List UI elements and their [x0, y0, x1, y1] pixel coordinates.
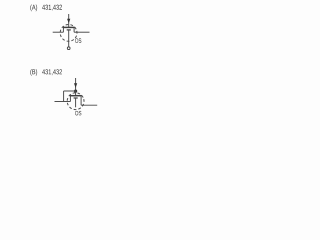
wire: feedback loop top segment (B): [64, 90, 76, 92]
gate bar (A): [67, 29, 71, 31]
value label 431,432 (A): [42, 5, 62, 11]
label OS (B): [75, 111, 81, 116]
drain leg left (A): [62, 28, 64, 33]
label OS (A): [75, 38, 81, 43]
open terminal circle (A bottom): [67, 47, 70, 50]
wire: substrate lead with arrow (A top): [68, 14, 70, 27]
label (A): [30, 4, 37, 11]
wire: right lead (A): [74, 31, 89, 33]
wire: left lead (A): [53, 31, 64, 33]
junction dot (B): [74, 90, 77, 93]
arrowhead down (A): [67, 19, 70, 24]
gate stem wire (B): [75, 98, 77, 107]
label (B): [30, 69, 37, 76]
source leg right (B): [80, 96, 82, 106]
source leg right (A): [73, 28, 75, 33]
arrowhead down (B): [74, 83, 77, 88]
transistor Q2 envelope (dashed circle): [65, 91, 85, 111]
transistor Q1 envelope (dashed circle): [58, 23, 78, 43]
wire: right lead (B): [81, 104, 97, 106]
wire: feedback loop vertical segment (B): [63, 91, 65, 102]
value label 431,432 (B): [42, 69, 62, 75]
gate stem wire (A): [68, 30, 70, 47]
wire: top lead with arrow (B): [75, 78, 77, 91]
channel bar (A): [63, 26, 75, 28]
wire: left lead (B): [55, 101, 71, 103]
gate bar (B): [74, 97, 78, 99]
channel bar (B): [70, 95, 82, 97]
wire: dot to channel (B): [75, 91, 77, 96]
drain leg left (B): [69, 96, 71, 102]
